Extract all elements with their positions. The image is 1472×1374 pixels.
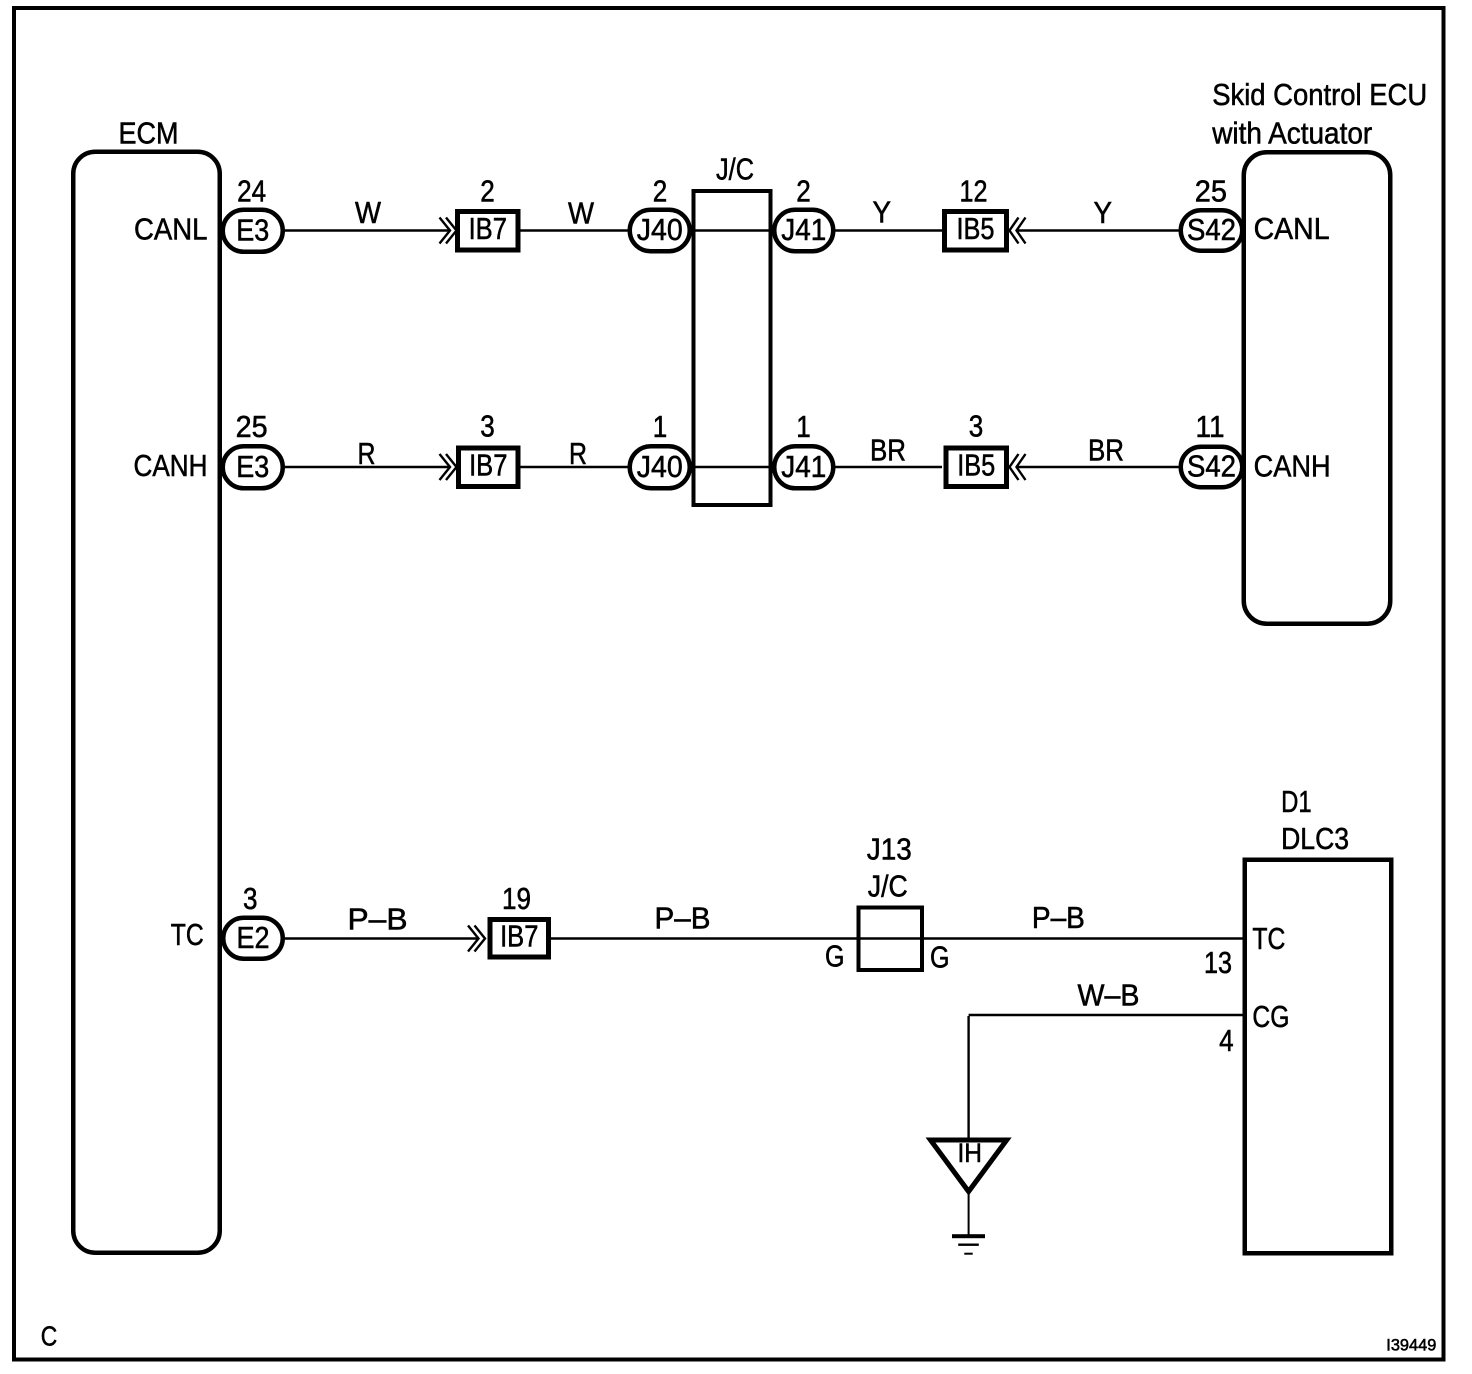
connector S42 pin 11 (CANH) (1181, 447, 1243, 488)
svg-text:CG: CG (1252, 1000, 1289, 1034)
svg-text:IB7: IB7 (469, 448, 507, 482)
Skid Control ECU block (1244, 152, 1391, 624)
junction block IB5 pin 12 (945, 212, 1007, 251)
pin number 13 (DLC3 TC) (1204, 946, 1232, 980)
wire label BR (left) (870, 434, 906, 468)
connector J41 pin 2 (774, 210, 833, 252)
svg-text:P–B: P–B (655, 902, 711, 936)
wire label R (right) (569, 437, 587, 471)
wire label P-B (left) (348, 903, 408, 937)
ground triangle IH (931, 1138, 1007, 1191)
wire label R (left) (358, 437, 376, 471)
junction block IB7 pin 2 (458, 212, 519, 251)
figure number I39449 (1386, 1335, 1436, 1354)
svg-text:IB7: IB7 (469, 212, 507, 246)
pin label TC (ECM) (171, 918, 204, 952)
svg-text:W: W (568, 196, 594, 230)
svg-text:J41: J41 (781, 450, 826, 484)
svg-text:Skid Control ECU: Skid Control ECU (1212, 78, 1427, 112)
svg-text:E3: E3 (236, 450, 269, 484)
svg-text:25: 25 (236, 410, 268, 444)
svg-text:TC: TC (171, 918, 204, 952)
wire J41 to IB5 (BR) (836, 466, 943, 468)
svg-text:BR: BR (870, 434, 906, 468)
svg-text:CANL: CANL (1254, 212, 1330, 246)
connector J41 pin 1 (774, 446, 833, 488)
Skid Control ECU label line 2 (1211, 117, 1372, 151)
pin number 19 (IB7 row3) (502, 882, 531, 916)
svg-text:TC: TC (1252, 922, 1285, 956)
svg-text:E2: E2 (237, 921, 270, 955)
svg-text:G: G (930, 941, 950, 975)
svg-text:19: 19 (502, 882, 531, 916)
wire IB7 to DLC3 through J13 (P-B) (551, 937, 1243, 939)
svg-text:3: 3 (243, 882, 258, 916)
label J/C (J13) (868, 869, 908, 903)
svg-text:3: 3 (480, 410, 495, 444)
svg-text:R: R (358, 437, 376, 471)
svg-text:4: 4 (1219, 1024, 1234, 1058)
pin number 1 (J41) (796, 410, 811, 444)
svg-text:12: 12 (960, 174, 988, 208)
connector E3 pin 25 (CANH) (223, 446, 283, 488)
pin number 2 (J40) (653, 174, 668, 208)
wire CG from DLC3 (W-B) (969, 1014, 1243, 1016)
junction connector J/C rectangle (694, 191, 771, 505)
connector E3 pin 24 (CANL) (223, 210, 283, 252)
pin number 2 (IB7 row1) (480, 174, 495, 208)
pin number 3 (IB7 row2) (480, 410, 495, 444)
svg-text:IB7: IB7 (500, 919, 538, 953)
wire label W-B (1078, 979, 1140, 1013)
connector arrows into IB7 row1 (440, 218, 457, 244)
label DLC3 (1281, 822, 1349, 856)
ground symbol bars (952, 1234, 985, 1255)
pin number 2 (J41) (796, 174, 811, 208)
svg-text:P–B: P–B (348, 903, 408, 937)
wire label G (right of J13) (930, 941, 950, 975)
svg-text:CANH: CANH (1254, 449, 1331, 483)
pin number 1 (J40) (653, 410, 668, 444)
ECM block (73, 152, 220, 1253)
svg-text:R: R (569, 437, 587, 471)
junction block IB5 pin 3 (946, 448, 1007, 487)
svg-text:D1: D1 (1281, 785, 1312, 819)
svg-text:with Actuator: with Actuator (1211, 117, 1372, 151)
pin number 3 (IB5 row2) (969, 410, 984, 444)
wire IB7 to J40 (W) (521, 229, 628, 231)
svg-text:G: G (825, 940, 845, 974)
svg-text:W: W (355, 196, 381, 230)
pin number 11 (S42) (1196, 410, 1225, 444)
wire IB5 to S42 (Y) (1016, 229, 1179, 231)
connector J40 pin 2 (630, 210, 690, 252)
svg-text:2: 2 (480, 174, 495, 208)
wire label P-B (middle) (655, 902, 711, 936)
pin number 25 (S42) (1195, 174, 1227, 208)
pin number 12 (IB5 row1) (960, 174, 988, 208)
wire through J/C row2 (692, 466, 772, 468)
junction block IB7 pin 19 (490, 919, 549, 957)
svg-text:13: 13 (1204, 946, 1232, 980)
connector arrows into IB7 row3 (468, 926, 485, 952)
page letter C (41, 1320, 58, 1351)
svg-text:J40: J40 (637, 213, 683, 247)
label J13 (867, 833, 912, 867)
wire down to ground IH (967, 1016, 969, 1138)
svg-text:IB5: IB5 (957, 212, 995, 246)
wire label BR (right) (1088, 434, 1124, 468)
DLC3 block D1 (1245, 860, 1392, 1254)
pin number 25 (E3 row2) (236, 410, 268, 444)
svg-text:1: 1 (796, 410, 811, 444)
pin label CANL (ECM) (134, 212, 208, 246)
svg-text:IH: IH (957, 1138, 982, 1168)
pin number 3 (E2) (243, 882, 258, 916)
svg-text:I39449: I39449 (1386, 1335, 1436, 1354)
svg-text:CANL: CANL (134, 212, 208, 246)
wire label Y (right) (1094, 196, 1113, 230)
svg-text:24: 24 (237, 174, 266, 208)
pin label CG (DLC3) (1252, 1000, 1289, 1034)
svg-text:J/C: J/C (868, 869, 908, 903)
pin label CANL (Skid ECU) (1254, 212, 1330, 246)
wire E3-24 to IB7 (W) (285, 229, 449, 231)
svg-text:S42: S42 (1187, 213, 1236, 247)
wire label G (left of J13) (825, 940, 845, 974)
wire J41 to IB5 (Y) (836, 229, 943, 231)
svg-text:J41: J41 (781, 213, 826, 247)
svg-text:25: 25 (1195, 174, 1227, 208)
wire E2 to IB7 (P-B) (285, 937, 478, 939)
wire IB7 to J40 (R) (521, 466, 628, 468)
wire label W (left) (355, 196, 381, 230)
svg-text:CANH: CANH (134, 449, 208, 483)
label D1 (1281, 785, 1312, 819)
svg-text:Y: Y (873, 195, 892, 229)
connector arrows out of IB5 row1 (1010, 218, 1026, 244)
wire label Y (left) (873, 195, 892, 229)
svg-text:E3: E3 (236, 213, 269, 247)
pin label CANH (ECM) (134, 449, 208, 483)
svg-text:1: 1 (653, 410, 668, 444)
svg-text:ECM: ECM (119, 116, 179, 150)
wire label P-B (right) (1032, 901, 1085, 935)
junction block IB7 pin 3 (459, 448, 519, 487)
ground stem (968, 1194, 970, 1237)
connector arrows out of IB5 row2 (1010, 454, 1026, 480)
J/C label (716, 152, 754, 186)
svg-text:C: C (41, 1320, 58, 1351)
svg-text:DLC3: DLC3 (1281, 822, 1349, 856)
wire IB5 to S42 (BR) (1016, 466, 1179, 468)
svg-text:W–B: W–B (1078, 979, 1140, 1013)
connector S42 pin 25 (CANL) (1181, 210, 1243, 251)
wire E3-25 to IB7 (R) (285, 466, 449, 468)
svg-text:3: 3 (969, 410, 984, 444)
svg-text:P–B: P–B (1032, 901, 1085, 935)
svg-text:J/C: J/C (716, 152, 754, 186)
connector E2 pin 3 (TC) (223, 918, 283, 959)
pin label CANH (Skid ECU) (1254, 449, 1331, 483)
svg-text:2: 2 (653, 174, 668, 208)
svg-text:IB5: IB5 (957, 448, 995, 482)
connector J40 pin 1 (630, 446, 690, 488)
wire through J/C row1 (692, 229, 772, 231)
connector arrows into IB7 row2 (440, 454, 457, 480)
svg-text:Y: Y (1094, 196, 1113, 230)
svg-text:2: 2 (796, 174, 811, 208)
ECM label (119, 116, 179, 150)
svg-text:J40: J40 (637, 450, 683, 484)
wire label W (right) (568, 196, 594, 230)
Skid Control ECU label line 1 (1212, 78, 1427, 112)
junction connector J13 square (859, 908, 923, 971)
pin number 24 (237, 174, 266, 208)
svg-text:11: 11 (1196, 410, 1225, 444)
svg-text:S42: S42 (1187, 450, 1236, 484)
svg-text:BR: BR (1088, 434, 1124, 468)
pin label TC (DLC3) (1252, 922, 1285, 956)
pin number 4 (DLC3 CG) (1219, 1024, 1234, 1058)
svg-text:J13: J13 (867, 833, 912, 867)
